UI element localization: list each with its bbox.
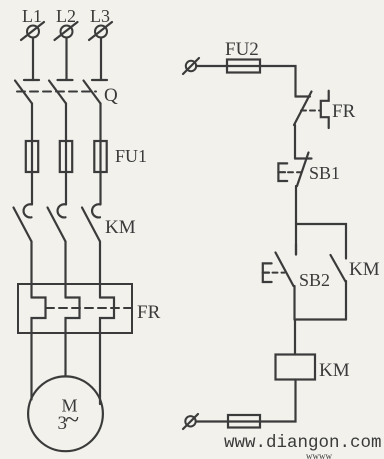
fuse bottom (228, 415, 260, 428)
wire terminal to FU2 (196, 65, 227, 67)
svg-text:L2: L2 (56, 6, 76, 26)
svg-text:KM: KM (349, 259, 380, 280)
switch Q pole 3 (84, 80, 108, 104)
svg-text:KM: KM (105, 217, 136, 238)
wire FU2 to corner (260, 66, 296, 97)
wire Q to FU1 pole 3 (99, 104, 101, 142)
label SB2 (299, 270, 330, 290)
wire junction to coil (294, 320, 296, 355)
label L3 (90, 6, 110, 26)
contactor coil KM (276, 355, 316, 380)
svg-text:KM: KM (319, 360, 350, 381)
svg-text:www.diangon.com: www.diangon.com (224, 433, 382, 453)
fuse FU2 (227, 60, 260, 73)
wire FR to motor phase 1 (30, 333, 32, 400)
label SB1 (309, 163, 340, 183)
contactor auxiliary contact KM (NO) (331, 255, 346, 282)
contactor main contact KM pole 3 (82, 204, 101, 241)
FR heater element 2 (66, 298, 80, 334)
FR heater element 3 (100, 298, 114, 334)
svg-text:FR: FR (137, 302, 161, 323)
wire coil to bottom line (260, 380, 296, 422)
label FR (contact) (332, 101, 356, 122)
stop button SB1 (NC) (295, 153, 312, 187)
svg-text:FR: FR (332, 101, 356, 122)
svg-text:~: ~ (65, 405, 79, 434)
wire SB2 to junction (293, 286, 295, 320)
thermal overload relay FR box (18, 284, 132, 333)
thermal relay contact FR (NC) (294, 92, 312, 126)
svg-text:SB1: SB1 (309, 163, 340, 183)
watermark www.diangon.com (224, 433, 382, 453)
fuse FU1 pole 2 (60, 141, 72, 172)
SB1 actuator linkage (dashed) (288, 171, 302, 173)
terminal L1 (21, 22, 44, 40)
wire L3 to Q (100, 38, 102, 81)
wire FR to SB1 (294, 125, 296, 159)
FR release bracket (321, 91, 329, 128)
FR linkage (dashed) (46, 307, 135, 309)
wire FU1 to KM pole 1 (31, 172, 33, 204)
label FU2 (225, 39, 259, 60)
wire FU1 to KM pole 3 (99, 172, 101, 204)
SB1 actuator (278, 163, 287, 181)
wire branch to SB2 (295, 224, 297, 255)
wire FR to motor phase 2 (64, 333, 66, 377)
label FR (overload) (137, 302, 161, 323)
contactor main contact KM pole 2 (48, 204, 67, 241)
svg-text:FU2: FU2 (225, 39, 259, 60)
wire KM aux to junction (345, 281, 347, 320)
wire KM to FR pole 3 (99, 242, 101, 298)
terminal control bottom (183, 414, 198, 429)
wire L2 to Q (65, 38, 67, 81)
label L2 (56, 6, 76, 26)
svg-text:L1: L1 (22, 6, 42, 26)
junction wire (parallel reconnect) (295, 318, 347, 320)
terminal control top (183, 58, 199, 74)
SB2 actuator (263, 263, 272, 282)
motor M circle (28, 376, 103, 451)
label KM (coil) (319, 360, 350, 381)
switch Q pole 2 (49, 80, 73, 104)
wire FR to motor phase 3 (99, 333, 101, 404)
wire L1 to Q (32, 38, 34, 81)
contactor main contact KM pole 1 (14, 204, 33, 241)
fuse FU1 pole 3 (94, 141, 106, 172)
label M (62, 396, 78, 416)
svg-text:L3: L3 (90, 6, 110, 26)
wire Q to FU1 pole 1 (31, 104, 33, 142)
svg-text:Q: Q (104, 85, 118, 106)
FR trip linkage (dashed) (301, 110, 320, 112)
FR heater element 1 (32, 298, 46, 334)
wire KM to FR pole 2 (64, 242, 66, 298)
label KM (aux contact) (349, 259, 380, 280)
terminal L2 (55, 22, 78, 40)
label KM (main contacts) (105, 217, 136, 238)
label 3~ (58, 405, 80, 434)
svg-text:FU1: FU1 (115, 146, 147, 166)
fuse FU1 pole 1 (26, 141, 38, 172)
wire Q to FU1 pole 2 (65, 104, 67, 142)
svg-text:wwww: wwww (306, 451, 332, 459)
switch Q linkage (dashed) (17, 91, 96, 93)
watermark remnant (306, 451, 332, 459)
switch Q pole 1 (15, 80, 39, 104)
wire SB1 to branch node (295, 186, 297, 224)
branch wire to KM contact (296, 224, 346, 259)
terminal L3 (89, 22, 112, 40)
SB2 actuator linkage (dashed) (273, 272, 285, 274)
svg-text:SB2: SB2 (299, 270, 330, 290)
label FU1 (115, 146, 147, 166)
wire fuse to terminal (196, 420, 228, 422)
wire KM to FR pole 1 (30, 242, 32, 298)
wire FU1 to KM pole 2 (65, 172, 67, 204)
start button SB2 (NO) (276, 244, 297, 286)
label Q (104, 85, 118, 106)
label L1 (22, 6, 42, 26)
